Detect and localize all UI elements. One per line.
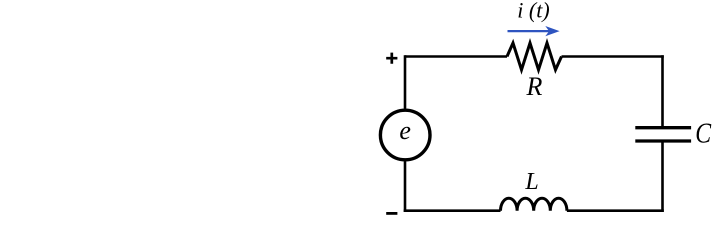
minus sign — [386, 212, 397, 215]
svg-text:L: L — [524, 169, 538, 195]
capacitor C bottom plate — [635, 139, 691, 142]
svg-text:C: C — [695, 116, 711, 149]
svg-text:R: R — [526, 72, 543, 101]
svg-text:e: e — [399, 116, 411, 145]
wire bottom-right horizontal — [567, 209, 664, 212]
current arrow i(t) — [508, 30, 550, 32]
wire top-right horizontal — [562, 55, 664, 58]
capacitor C top plate — [635, 126, 691, 129]
wire right lower vertical — [661, 141, 664, 212]
wire left upper vertical — [404, 55, 407, 108]
voltage source circle e — [380, 110, 430, 160]
wire bottom-left horizontal — [404, 209, 501, 212]
wire left lower vertical — [404, 161, 407, 212]
inductor L — [501, 198, 567, 211]
plus sign — [386, 53, 397, 64]
wire right upper vertical — [661, 55, 664, 127]
wire top-left horizontal — [405, 55, 507, 58]
resistor R — [507, 43, 562, 70]
svg-text:i (t): i (t) — [517, 0, 549, 23]
